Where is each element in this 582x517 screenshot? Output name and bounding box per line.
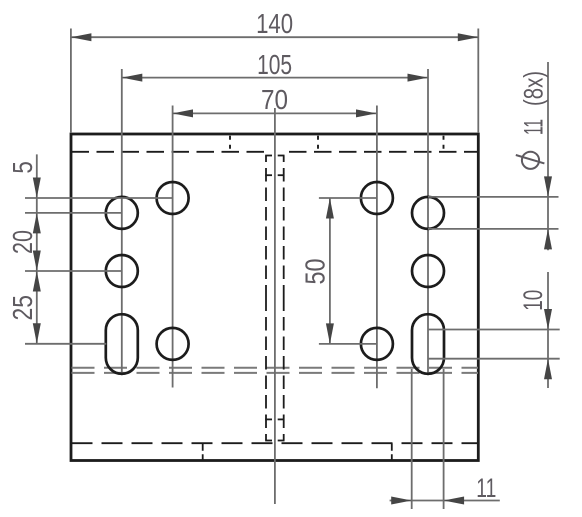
dimension dia 11 (8x)	[428, 62, 559, 250]
dimension line left column	[36, 154, 38, 343]
hole bottom inner right	[361, 328, 393, 360]
dimension line 10	[547, 272, 549, 388]
dimension line 11	[390, 500, 500, 502]
svg-text:25: 25	[7, 295, 38, 321]
dimension line dia 11	[547, 62, 549, 250]
hole mid outer right	[412, 255, 444, 287]
arrowhead 5 bottom	[33, 213, 41, 234]
dimension line 105	[122, 77, 428, 79]
arrowhead dia 11 bottom	[544, 229, 552, 250]
hole top outer right	[412, 197, 444, 229]
dimension line 50	[329, 198, 331, 344]
centerline plate middle	[274, 108, 276, 504]
arrowhead 70 right	[356, 109, 377, 117]
dimension 20	[7, 230, 41, 271]
hidden edge tick bottom A	[202, 443, 204, 460]
dimension 11 bottom	[390, 369, 500, 509]
leader line slot arc center top	[428, 329, 560, 331]
dimension 5	[7, 154, 41, 343]
leader line left to hole mid outer	[25, 270, 122, 272]
hole mid outer left	[106, 255, 138, 287]
leader line 50 bottom	[319, 343, 377, 345]
svg-text:11: 11	[476, 473, 496, 503]
dimension 105	[122, 49, 428, 82]
arrowhead 105 right	[408, 74, 429, 82]
arrowhead 25 bottom	[33, 323, 41, 344]
hidden center slot	[265, 156, 284, 441]
dimension line 140	[71, 36, 478, 38]
leader line left to hole top inner	[25, 197, 173, 199]
leader line 50 top	[319, 197, 377, 199]
slot left	[106, 314, 138, 374]
slot right	[412, 314, 444, 374]
svg-text:140: 140	[256, 8, 293, 39]
dimension 70	[173, 84, 377, 117]
dimension 50	[300, 198, 377, 344]
hidden bend line top right segment	[289, 151, 478, 153]
leader line hole tangent top	[428, 196, 559, 198]
svg-text:20: 20	[7, 230, 38, 254]
svg-text:(8x): (8x)	[519, 71, 549, 106]
arrowhead 11 right	[444, 497, 465, 505]
leader line hole tangent bottom	[428, 228, 559, 230]
leader line left to hole top outer	[25, 212, 122, 214]
extension line 140 right	[477, 29, 479, 134]
leader line left to slot	[25, 343, 106, 345]
svg-text:105: 105	[257, 49, 292, 80]
dimension 140	[71, 8, 478, 133]
diameter symbol circle	[522, 152, 539, 169]
arrowhead 50 bottom	[326, 323, 334, 344]
svg-text:11: 11	[519, 119, 549, 135]
centerline hole column left inner	[172, 106, 174, 388]
diameter symbol slash	[516, 155, 545, 163]
hole bottom inner left	[157, 328, 189, 360]
arrowhead 70 left	[173, 109, 194, 117]
centerline hole column right inner	[376, 106, 378, 389]
arrowhead 10 top	[544, 309, 552, 330]
centerline hole column left outer	[121, 69, 123, 375]
hidden edge tick top C	[443, 136, 445, 150]
hole top inner right	[361, 182, 393, 214]
arrowhead 20 bottom	[33, 251, 41, 272]
arrowhead 5 top	[33, 178, 41, 199]
extension line slot right edge	[443, 369, 445, 509]
svg-text:5: 5	[7, 161, 38, 174]
arrowhead 105 left	[122, 74, 143, 82]
hole top outer left	[106, 197, 138, 229]
svg-text:70: 70	[261, 84, 288, 115]
arrowhead 10 bottom	[544, 359, 552, 380]
plate outline	[71, 134, 478, 461]
hidden edge tick bottom B	[391, 443, 393, 460]
leader line slot arc center bottom	[428, 358, 560, 360]
arrowhead 140 right	[458, 33, 479, 41]
centerline hole column right outer	[427, 69, 429, 375]
arrowhead dia 11 top	[544, 176, 552, 197]
hidden edge tick top B	[317, 136, 319, 150]
dimension line 70	[173, 112, 377, 114]
dimension 25	[7, 271, 41, 344]
arrowhead 11 left	[391, 497, 412, 505]
arrowhead 25 top	[33, 271, 41, 292]
arrowhead 50 top	[326, 198, 334, 219]
extension line 140 left	[70, 29, 72, 134]
extension line slot left edge	[411, 369, 413, 509]
hidden bend line top left segment	[72, 151, 271, 153]
hidden bend line bottom	[72, 442, 479, 444]
dimension 10	[428, 272, 560, 388]
fold tangent line mid lower	[72, 372, 479, 374]
svg-text:10: 10	[518, 290, 548, 311]
arrowhead 140 left	[71, 33, 92, 41]
fold tangent line mid upper	[72, 367, 479, 369]
svg-text:50: 50	[300, 259, 331, 285]
hole top inner left	[157, 182, 189, 214]
hidden edge tick top A	[229, 136, 231, 150]
